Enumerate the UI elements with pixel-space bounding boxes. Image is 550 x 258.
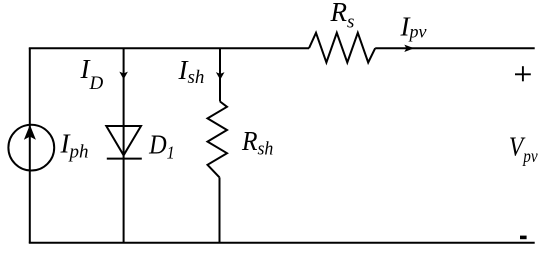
svg-text:ID: ID [80, 54, 104, 94]
diode D1 triangle [106, 126, 141, 155]
resistor R_sh zigzag [208, 102, 228, 178]
svg-text:D1: D1 [148, 129, 175, 163]
wire: shunt branch upper vertical [219, 48, 221, 101]
plus terminal sign [515, 66, 531, 81]
diode D1 cathode bar [107, 158, 142, 160]
current source I_ph circle [8, 125, 54, 171]
wire: bottom rail [29, 242, 535, 244]
svg-text:Rs: Rs [330, 0, 355, 33]
label V_pv [509, 132, 538, 167]
wire: top rail left segment [29, 47, 309, 49]
svg-text:Iph: Iph [60, 128, 89, 162]
svg-text:Ish: Ish [178, 55, 205, 88]
arrow I_D on diode branch (barbed, pointing down) [119, 72, 128, 80]
value label R_sh [241, 126, 273, 158]
current source arrowhead (barbed, pointing up) [24, 125, 36, 140]
svg-text:Vpv: Vpv [509, 132, 538, 167]
svg-text:Rsh: Rsh [241, 126, 273, 158]
resistor R_s (series) zigzag [309, 33, 375, 63]
wire: shunt branch lower vertical [219, 177, 221, 242]
wire: left branch vertical [29, 48, 31, 243]
label D_1 [148, 129, 175, 163]
arrow I_pv on top rail (barbed, pointing right) [404, 45, 414, 52]
arrow I_sh on shunt branch (barbed, pointing down) [216, 72, 225, 80]
svg-text:Ipv: Ipv [400, 12, 427, 42]
minus terminal sign [520, 236, 527, 240]
wire: top rail right segment [375, 47, 535, 49]
wire: diode branch vertical [123, 48, 125, 243]
